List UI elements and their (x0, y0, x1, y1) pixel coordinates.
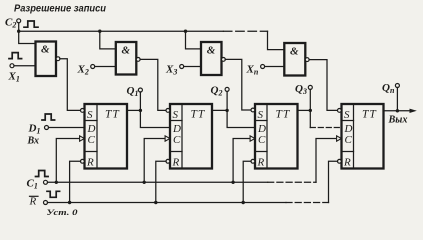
wire Q2 terminal stub (226, 91, 228, 110)
wire R dashed riser to DD4 R input (329, 161, 338, 202)
junction Q2 tap (225, 109, 228, 112)
DD3 R field line (255, 151, 267, 153)
wire R riser to DD1 R input (70, 161, 81, 202)
wire Q3 to DD4 D input (dashed omitted stages) (310, 127, 341, 129)
dynamic input triangle DD2 C (165, 136, 170, 141)
inversion bubble U2 output (136, 58, 140, 62)
junction R bus / DD3 riser (242, 201, 245, 204)
svg-text:C: C (173, 134, 181, 146)
junction C1 bus / DD1 riser (55, 181, 58, 184)
node Q1 terminal (138, 88, 142, 92)
junction R bus / DD1 riser (68, 201, 71, 204)
wire Q3 down (309, 110, 311, 127)
inversion bubble DD2 S input (166, 109, 170, 113)
pulse symbol at D1 (42, 114, 55, 120)
node Qn terminal (395, 84, 399, 88)
wire riser enable net to gate2 top input (100, 31, 116, 49)
svg-text:TT: TT (105, 109, 120, 121)
wire X1 to gate1 lower input (14, 65, 36, 67)
svg-text:Qn: Qn (382, 82, 395, 95)
flip-flop DD2 (TT) body (170, 104, 212, 169)
inversion bubble DD3 R input (251, 159, 255, 163)
inversion bubble DD1 R input (81, 159, 85, 163)
pulse symbol at C1 (36, 171, 49, 177)
wire C1 dashed riser to DD4 C input (316, 139, 336, 183)
node X2 input terminal (91, 65, 95, 69)
dynamic input triangle DD4 C (337, 136, 342, 141)
DD1 control field separator (96, 104, 98, 169)
wire enable net corner down to gate4 top input (268, 31, 285, 49)
inversion bubble DD1 S input (81, 109, 85, 113)
wire U4 output to FF4 S input (309, 60, 337, 111)
wire DD3 Q output (298, 109, 311, 111)
svg-text:Разрешение записи: Разрешение записи (14, 3, 107, 15)
DD3 control field separator (266, 104, 268, 169)
junction Q3 tap (309, 109, 312, 112)
junction Q1 tap (139, 109, 142, 112)
pulse symbol at X1 (9, 53, 22, 59)
flip-flop DD3 (TT) body (255, 104, 298, 169)
gate U3 (NAND &) (201, 42, 222, 75)
svg-text:S: S (87, 109, 93, 121)
pulse symbol at C2 (24, 21, 38, 27)
junction C1 bus / DD3 riser (231, 181, 234, 184)
wire Xn to gate4 lower input (265, 66, 285, 68)
inversion bubble DD4 R input (338, 159, 342, 163)
inversion bubble U4 output (305, 58, 309, 62)
junction enable net / gate2 riser (98, 30, 101, 33)
svg-text:S: S (344, 109, 350, 121)
svg-text:Q1: Q1 (127, 85, 139, 98)
svg-text:&: & (122, 45, 131, 57)
svg-text:D1: D1 (28, 123, 41, 136)
svg-text:&: & (207, 45, 216, 57)
gate U1 (NAND &) (36, 42, 57, 77)
node X1 input terminal (10, 64, 14, 68)
svg-text:R: R (257, 157, 265, 169)
svg-text:Уст. 0: Уст. 0 (47, 207, 79, 217)
wire X2 to gate2 lower input (95, 66, 116, 68)
wire X3 to gate3 lower input (184, 66, 201, 68)
wire Q1 terminal stub (139, 92, 141, 110)
svg-text:TT: TT (276, 109, 291, 121)
wire DD1 Q output (127, 109, 140, 111)
DD2 control field separator (181, 104, 183, 169)
node C1 input terminal (44, 180, 48, 184)
DD4 R field line (342, 151, 354, 153)
wire C1 riser to DD1 C input (56, 139, 78, 183)
junction enable net / gate3 riser (184, 30, 187, 33)
svg-text:TT: TT (362, 109, 377, 121)
wire DD2 Q output (212, 109, 227, 111)
wire DD4 Q output to Вых (384, 110, 412, 112)
output arrowhead (410, 109, 417, 113)
wire drop from enable net to gate1 top input (19, 31, 36, 43)
svg-text:R: R (343, 157, 351, 169)
DD3 S field line (255, 120, 267, 122)
svg-text:&: & (290, 46, 299, 58)
wire U1 output to FF1 S input (60, 59, 81, 111)
wire Qn terminal stub (396, 88, 398, 111)
svg-text:Q2: Q2 (211, 85, 223, 98)
negative pulse symbol at R (47, 191, 60, 197)
wire top enable net (dashed continuation) (223, 30, 267, 32)
svg-text:C1: C1 (27, 178, 38, 191)
node D1 input terminal (45, 126, 49, 130)
DD2 S field line (170, 120, 182, 122)
svg-text:R: R (29, 196, 37, 208)
DD2 R field line (170, 151, 182, 153)
DD4 control field separator (353, 104, 355, 169)
wire D1 to DD1 D input (49, 127, 85, 129)
node Q2 terminal (225, 87, 229, 91)
wire riser enable net to gate3 top input (186, 31, 202, 49)
DD1 S field line (85, 120, 98, 122)
junction C2 net at gate1 drop (17, 30, 20, 33)
wire C1 riser to DD3 C input (233, 139, 249, 183)
svg-text:Xn: Xn (246, 64, 259, 77)
svg-text:TT: TT (191, 109, 206, 121)
svg-text:X2: X2 (77, 64, 89, 77)
svg-text:C: C (88, 134, 96, 146)
gate U4 (NAND &) (284, 43, 305, 76)
inversion bubble U1 output (56, 57, 60, 61)
wire Q1 to DD2 D input (140, 110, 170, 127)
junction C1 bus / DD2 riser (143, 181, 146, 184)
svg-text:S: S (173, 109, 179, 121)
wire R bus (solid part) (48, 202, 287, 204)
wire Q2 to DD3 D input (227, 110, 255, 127)
svg-text:R: R (86, 157, 94, 169)
junction Qn tap (396, 109, 399, 112)
wire C1 bus (dashed part to DD4) (268, 181, 316, 183)
wire U2 output to FF2 S input (140, 59, 166, 110)
inversion bubble DD4 S input (338, 109, 342, 113)
wire C1 riser to DD2 C input (144, 139, 164, 183)
inversion bubble DD2 R input (166, 159, 170, 163)
DD4 S field line (342, 120, 354, 122)
svg-text:&: & (41, 44, 50, 56)
overline of R-bar (30, 195, 39, 197)
gate U2 (NAND &) (116, 42, 137, 75)
node C2 input terminal (17, 19, 21, 23)
wire R riser to DD2 R input (156, 161, 166, 202)
wire R riser to DD3 R input (243, 161, 251, 202)
inversion bubble U3 output (222, 58, 226, 62)
svg-text:C: C (258, 134, 266, 146)
flip-flop DD4 (TT) body (342, 104, 384, 169)
wire U3 output to FF3 S input (225, 59, 251, 110)
svg-text:C2: C2 (5, 17, 16, 30)
wire C2 terminal stub down (18, 23, 20, 31)
junction R bus / DD2 riser (154, 201, 157, 204)
svg-text:C: C (345, 134, 353, 146)
svg-text:Вых: Вых (387, 115, 407, 126)
node Q3 terminal (308, 85, 312, 89)
node R input terminal (44, 201, 48, 205)
node X3 input terminal (180, 65, 184, 69)
flip-flop DD1 (TT) body (85, 104, 128, 169)
inversion bubble DD3 S input (251, 108, 255, 112)
svg-text:X1: X1 (8, 71, 20, 84)
wire top enable net horizontal (solid part) (19, 30, 224, 32)
DD1 R field line (85, 151, 98, 153)
dynamic input triangle DD1 C (80, 136, 85, 141)
node Xn input terminal (261, 65, 265, 69)
svg-text:Q3: Q3 (295, 83, 307, 96)
svg-text:X3: X3 (165, 64, 177, 77)
wire Q3 terminal stub (309, 89, 311, 110)
svg-text:Вх: Вх (27, 136, 40, 147)
dynamic input triangle DD3 C (250, 136, 255, 141)
wire R bus (dashed part to DD4) (286, 202, 329, 204)
svg-text:R: R (172, 157, 180, 169)
wire C1 bus (solid part) (48, 181, 268, 183)
svg-text:S: S (258, 109, 264, 121)
